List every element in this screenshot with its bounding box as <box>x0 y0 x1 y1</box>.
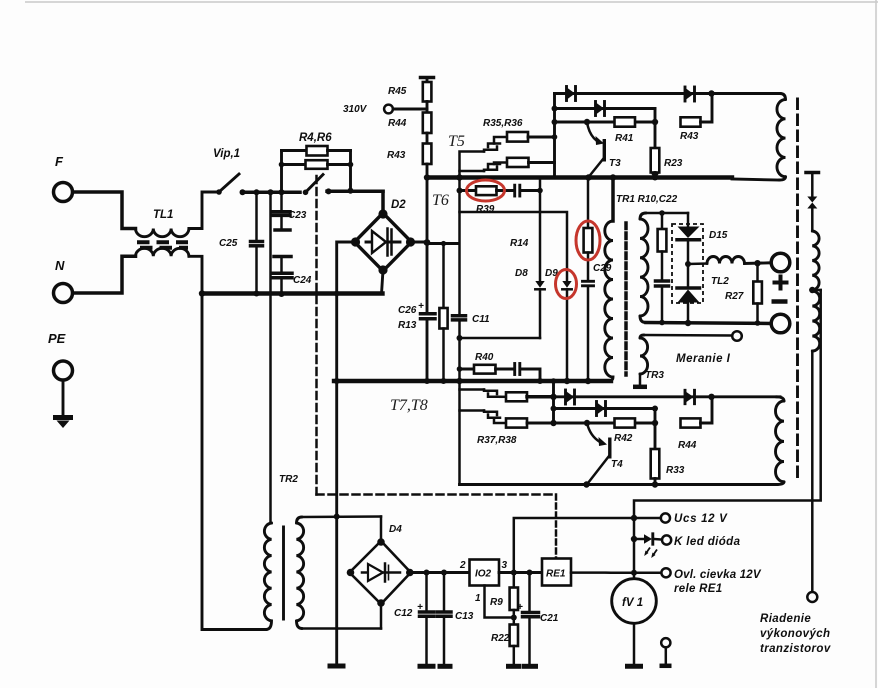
svg-text:N: N <box>55 258 65 273</box>
svg-text:R9: R9 <box>490 597 503 608</box>
long left return vertical <box>202 294 266 630</box>
capacitor C21 label <box>517 602 559 624</box>
transistor T4 <box>587 423 610 483</box>
svg-text:C21: C21 <box>540 613 559 624</box>
winding right W3b <box>812 291 819 351</box>
svg-text:R22: R22 <box>491 633 510 644</box>
dashed link to RE1 <box>555 495 558 559</box>
node T4 collector <box>584 420 590 426</box>
transformer TR2 primary winding <box>264 523 271 630</box>
capacitor C26 label <box>398 301 424 316</box>
svg-text:D4: D4 <box>389 524 402 535</box>
wire tap to TL2 <box>688 262 707 265</box>
svg-text:T3: T3 <box>609 158 621 169</box>
resistor R38 <box>506 418 554 427</box>
svg-text:C23: C23 <box>288 210 307 221</box>
node winding tap <box>809 287 821 293</box>
svg-text:tranzistorov: tranzistorov <box>760 643 831 655</box>
wire winding down to Riadenie <box>811 351 814 592</box>
emitter bus <box>427 178 779 181</box>
capacitor C22 <box>656 281 669 325</box>
capacitor C24 <box>273 257 293 294</box>
wire TL2 to plus terminal <box>745 260 772 266</box>
left rail top block <box>552 94 558 178</box>
svg-text:TR2: TR2 <box>279 474 298 485</box>
svg-text:TL1: TL1 <box>153 209 173 221</box>
node C23 top <box>279 189 285 195</box>
terminal 310V <box>384 105 393 114</box>
node TR2 feed top <box>268 189 274 195</box>
label Ovl cievka <box>674 569 762 595</box>
plug contact T5 lower <box>484 163 507 172</box>
resistor R37 <box>500 392 554 401</box>
svg-text:T7,T8: T7,T8 <box>390 397 428 414</box>
svg-text:D8: D8 <box>515 268 528 279</box>
resistor mid vertical (circled) <box>584 178 593 281</box>
capacitor after R39 <box>515 185 543 196</box>
minus sign <box>772 299 788 304</box>
transistor T3 <box>587 122 604 177</box>
svg-text:T6: T6 <box>432 192 449 209</box>
plus sign <box>773 275 789 291</box>
svg-text:TR3: TR3 <box>645 370 664 381</box>
red circle around mid resistor <box>576 221 600 260</box>
capacitor after R40 <box>515 364 540 382</box>
svg-text:R14: R14 <box>510 238 529 249</box>
svg-text:R43: R43 <box>680 131 699 142</box>
svg-text:K led dióda: K led dióda <box>674 536 741 548</box>
svg-text:R4,R6: R4,R6 <box>299 132 332 144</box>
node T3 emitter bus <box>585 174 591 180</box>
output terminal plus <box>771 253 790 272</box>
terminal Ovl <box>661 568 670 577</box>
vertical lineB-lineC <box>654 409 657 424</box>
wire IO2 pin1 <box>485 586 514 618</box>
transformer TR1 primary winding <box>605 221 613 381</box>
wire lower return line <box>460 483 778 486</box>
wire TR2 sec bottom to D4 <box>302 603 381 629</box>
svg-text:R43: R43 <box>387 150 406 161</box>
IC IO2 <box>470 560 500 586</box>
svg-text:310V: 310V <box>343 104 368 115</box>
stub to R13 and C11 line <box>427 241 459 246</box>
node line1 R43 <box>708 90 714 96</box>
capacitor C26 <box>421 314 436 381</box>
svg-text:C29: C29 <box>593 263 612 274</box>
wire F to TL1 <box>73 192 136 229</box>
svg-text:výkonových: výkonových <box>760 628 830 640</box>
top tap bar <box>421 76 434 80</box>
transformer TR1 core <box>624 223 628 375</box>
LED arrows <box>644 548 657 559</box>
node C25 top <box>254 189 260 195</box>
wire bus to D2 <box>381 191 385 213</box>
svg-text:R40: R40 <box>475 352 494 363</box>
wire TR1 secondary top <box>646 210 688 216</box>
node T3 collector <box>584 119 590 125</box>
relay RE1 <box>542 559 571 586</box>
resistor R45 <box>423 78 432 102</box>
terminal spare <box>661 638 670 663</box>
svg-text:PE: PE <box>48 331 66 346</box>
capacitor C29 <box>583 281 594 384</box>
node meter crossing <box>631 570 637 576</box>
svg-text:R39: R39 <box>476 204 495 215</box>
node chain bus <box>424 174 430 180</box>
switch Vip.1 pole 1 <box>216 174 245 195</box>
wire TL1 to bottom bus <box>189 256 202 293</box>
wire output bottom line <box>646 323 771 324</box>
resistor R27 <box>753 263 762 326</box>
resistor R23 <box>651 122 660 180</box>
output terminal minus <box>771 314 790 333</box>
left rail lower block <box>550 378 556 426</box>
svg-text:F: F <box>55 154 64 169</box>
bridge rectifier D4 <box>347 538 414 607</box>
svg-text:Ucs 12 V: Ucs 12 V <box>674 513 728 525</box>
ground primary return <box>328 664 346 669</box>
dashed box left <box>315 176 318 495</box>
dashed isolation line <box>796 99 799 478</box>
transformer TR3 secondary <box>640 335 648 385</box>
svg-text:C12: C12 <box>394 608 413 619</box>
wire D2 right vertex <box>411 241 428 244</box>
vertical line2-line3 <box>654 109 657 123</box>
svg-text:+: + <box>418 301 424 312</box>
diode lineA left <box>566 390 575 404</box>
winding top-right W1 <box>777 94 786 181</box>
ground C12 <box>418 664 436 669</box>
node C25 bottom <box>254 291 260 297</box>
capacitor C12 label <box>394 602 423 619</box>
diode lineB <box>597 402 606 416</box>
ground spare <box>660 664 672 669</box>
resistor R4 <box>282 146 351 192</box>
diode lineA right <box>685 390 695 403</box>
wire T7 stub upper <box>460 388 485 391</box>
resistor R43b <box>681 94 713 127</box>
node R23 bus <box>652 175 658 181</box>
ground PE <box>53 380 73 428</box>
primary return vertical <box>334 291 340 664</box>
node lineB R33 <box>652 406 658 412</box>
svg-text:R45: R45 <box>388 86 407 97</box>
wire 310V to chain <box>393 108 427 111</box>
svg-text:C13: C13 <box>455 611 474 622</box>
plug contact T5 upper <box>484 137 507 152</box>
ground C13 <box>438 664 453 669</box>
svg-text:Riadenie: Riadenie <box>760 613 811 625</box>
wire tap feedback <box>634 290 821 579</box>
svg-text:R23: R23 <box>664 158 683 169</box>
wire Meranie <box>644 334 732 337</box>
svg-text:R44: R44 <box>388 118 407 129</box>
dashed box D15 <box>672 224 703 303</box>
svg-text:2: 2 <box>459 560 466 571</box>
capacitor C25 <box>251 192 263 293</box>
wire line2 <box>555 107 656 110</box>
red circle around D9 <box>556 270 577 299</box>
resistor R40 <box>457 365 514 374</box>
junction hourglass <box>807 197 817 232</box>
resistor R44 <box>423 102 432 134</box>
transformer TR1 secondary winding <box>640 213 648 323</box>
wire lineA <box>554 395 781 398</box>
svg-text:Meranie I: Meranie I <box>676 353 731 365</box>
diode line2 <box>596 102 605 116</box>
svg-text:R27: R27 <box>725 291 744 302</box>
resistor R41 <box>615 117 636 126</box>
svg-text:Vip,1: Vip,1 <box>213 148 240 160</box>
stub bar right <box>806 173 819 198</box>
capacitor C11 <box>453 316 466 320</box>
ground TR3 <box>633 385 647 390</box>
terminal Riadenie <box>807 592 817 602</box>
winding lower-right W2 <box>776 397 785 485</box>
svg-text:R42: R42 <box>614 433 633 444</box>
transformer TL1 core <box>137 242 188 248</box>
svg-text:C25: C25 <box>219 238 238 249</box>
node R41 R43 <box>652 119 658 125</box>
svg-text:D15: D15 <box>709 230 728 241</box>
wire meter ground <box>633 623 636 664</box>
svg-text:1: 1 <box>475 593 481 604</box>
node C24 bottom <box>279 291 285 297</box>
svg-text:R41: R41 <box>615 133 634 144</box>
wire D2 bottom to bus <box>382 270 384 294</box>
ground meter <box>625 664 643 669</box>
terminal PE <box>54 361 73 380</box>
label Riadenie <box>760 613 831 655</box>
svg-text:C24: C24 <box>293 275 312 286</box>
node lineA R44b <box>708 394 714 400</box>
terminal K led dioda <box>662 535 671 544</box>
capacitor C13 <box>437 573 451 665</box>
resistor R33 <box>651 423 660 488</box>
resistor R35 <box>507 132 555 142</box>
resistor R44b <box>681 397 713 428</box>
transformer TR2 core <box>282 527 285 619</box>
svg-text:rele RE1: rele RE1 <box>674 583 722 595</box>
winding right W3a <box>812 231 819 290</box>
red circle around R39 <box>467 180 505 201</box>
wire T5 left drop <box>460 152 485 178</box>
diode top line1 right <box>685 87 695 101</box>
mid ground bus <box>334 378 611 384</box>
resistor R42 <box>615 418 636 427</box>
wire mains bus segment 2 <box>327 190 383 194</box>
terminal Ucc <box>661 513 670 522</box>
svg-text:R33: R33 <box>666 465 685 476</box>
wire mains bus segment 1 <box>243 191 301 195</box>
ground R22 <box>506 664 522 669</box>
resistor R36 <box>507 158 555 167</box>
inductor TL2 <box>707 257 745 264</box>
plug contact T8 lower <box>484 411 506 424</box>
diode D15 upper <box>677 213 700 286</box>
diode D15 lower <box>677 288 700 326</box>
svg-text:TL2: TL2 <box>711 276 729 287</box>
transformer TR2 secondary winding <box>297 517 304 629</box>
wire T6 loop <box>460 212 568 281</box>
wire chain down to D2 right <box>424 178 431 313</box>
wire D4 to IO2 <box>410 570 470 576</box>
bridge rectifier D2 <box>351 209 415 274</box>
resistor R39 <box>460 186 514 195</box>
svg-text:T4: T4 <box>611 459 623 470</box>
svg-text:3: 3 <box>502 560 508 571</box>
svg-text:R13: R13 <box>398 320 417 331</box>
wire D2 left to return <box>337 242 356 294</box>
svg-text:R35,R36: R35,R36 <box>483 118 523 129</box>
svg-text:TR1 R10,C22: TR1 R10,C22 <box>616 194 678 205</box>
node R42 R44b <box>652 420 658 426</box>
node TL1 bottom <box>199 290 205 296</box>
wire line3 <box>555 121 656 124</box>
svg-text:T5: T5 <box>448 133 465 150</box>
meter fV1 <box>612 579 657 624</box>
wire IO2 to RE1 <box>499 570 542 576</box>
scan edge right <box>875 0 877 688</box>
transformer TL1 bottom winding <box>136 248 189 256</box>
wire line1 top <box>555 92 781 95</box>
svg-text:R44: R44 <box>678 440 697 451</box>
node T4 emitter <box>583 481 589 487</box>
wire RE1 to terminal <box>571 571 662 574</box>
resistor R6 <box>279 160 354 169</box>
terminal F <box>54 183 73 202</box>
bottom AC bus <box>202 291 383 295</box>
wire N to TL1 <box>73 256 136 293</box>
resistor R13 <box>439 244 447 382</box>
stub bus to R39 cap <box>539 178 542 191</box>
node R4R6 right <box>348 188 354 194</box>
node TR1 top feed <box>610 174 616 180</box>
wire TR2 sec top to D4 <box>302 514 381 542</box>
diode D9 <box>562 281 571 384</box>
ground C21 <box>522 664 538 669</box>
plug contact T7 upper <box>484 390 500 397</box>
resistor R22 <box>510 618 518 665</box>
svg-text:R37,R38: R37,R38 <box>477 435 517 446</box>
capacitor C21 <box>523 573 539 665</box>
switch Vip.1 pole 2 <box>303 175 332 196</box>
diode D8 <box>460 191 545 339</box>
wire lineB <box>554 407 656 410</box>
resistor R43 <box>423 133 432 178</box>
svg-text:D2: D2 <box>391 199 406 211</box>
resistor R9 <box>510 573 518 621</box>
resistor R10 <box>658 213 667 281</box>
dashed box bottom <box>317 493 557 496</box>
wire Ucc line <box>514 515 661 573</box>
terminal Meranie <box>732 331 742 341</box>
wire lineC <box>554 422 656 425</box>
wire T8 stub lower <box>460 409 485 412</box>
terminal N <box>54 284 73 303</box>
transformer TR1 primary feed <box>611 178 615 222</box>
diode LED feed <box>631 534 662 544</box>
capacitor C23 <box>273 192 290 230</box>
svg-text:RE1: RE1 <box>546 569 566 580</box>
svg-text:C26: C26 <box>398 305 417 316</box>
node D15 center tap <box>685 261 691 267</box>
scan edge top <box>25 1 878 3</box>
svg-text:IO2: IO2 <box>475 569 492 580</box>
svg-text:C11: C11 <box>472 314 490 325</box>
transformer TL1 top winding <box>136 229 189 237</box>
main mid vertical <box>456 174 462 484</box>
wire T6a stub <box>460 170 485 173</box>
capacitor C12 <box>420 573 434 665</box>
svg-text:fV 1: fV 1 <box>622 597 643 609</box>
wire TL1 to switch <box>189 192 216 229</box>
diode top line1 left <box>567 87 576 101</box>
wire TR2 primary feed <box>269 192 272 523</box>
svg-text:Ovl. cievka 12V: Ovl. cievka 12V <box>674 569 762 581</box>
